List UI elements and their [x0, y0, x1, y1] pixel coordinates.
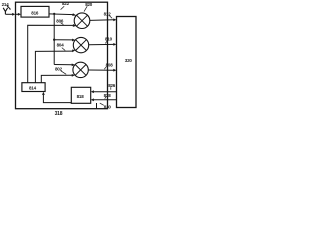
- leader 802: [61, 71, 66, 75]
- svg-text:818: 818: [77, 94, 85, 99]
- leader 804: [62, 48, 65, 51]
- arrowhead leader 214: [9, 8, 11, 10]
- arrowhead into border: [12, 13, 15, 16]
- riser R2 from 814: [35, 51, 72, 83]
- wire W1 320 to 818: [94, 91, 117, 93]
- svg-text:808: 808: [106, 63, 114, 68]
- mixer M1: [74, 13, 90, 29]
- svg-text:822: 822: [62, 1, 70, 6]
- wire W2 320 to 818: [94, 99, 117, 101]
- svg-text:820: 820: [85, 2, 93, 7]
- mixer M3: [73, 62, 88, 77]
- svg-text:806: 806: [56, 18, 64, 23]
- leader 826: [110, 87, 112, 90]
- wire M3 to 320: [88, 69, 114, 71]
- svg-text:214: 214: [2, 2, 10, 7]
- leader 808: [104, 67, 106, 70]
- svg-text:320: 320: [125, 58, 133, 63]
- wire antenna to border: [5, 13, 12, 15]
- wire M1 to 320: [90, 19, 114, 22]
- svg-text:812: 812: [104, 11, 112, 16]
- arrowhead into 320 from M3: [113, 69, 116, 72]
- arrowhead into 320 from M2: [113, 43, 116, 46]
- junction dot B: [53, 39, 55, 41]
- svg-text:828: 828: [104, 93, 112, 98]
- arrowhead into 320 from M1: [113, 18, 116, 21]
- svg-text:814: 814: [29, 86, 37, 91]
- arrowhead M2 lower input: [72, 50, 75, 53]
- svg-text:830: 830: [104, 105, 112, 110]
- arrowhead M1 upper input: [72, 13, 76, 16]
- arrowhead M2 upper input: [72, 39, 75, 42]
- antenna 214: [3, 8, 7, 15]
- arrowhead M1 lower input: [73, 24, 77, 27]
- arrowhead up into 814: [42, 92, 45, 95]
- arrowhead W2 into 818: [91, 98, 94, 101]
- wire 818 to 814: [43, 95, 71, 103]
- box 818: [71, 87, 90, 103]
- wire branch to mixer M3: [54, 64, 72, 66]
- leader 810: [105, 41, 107, 44]
- distribution vertical: [53, 14, 55, 65]
- leader 214: [7, 6, 10, 10]
- svg-text:802: 802: [55, 67, 63, 72]
- riser R1 from 814: [28, 25, 74, 82]
- leader 806: [61, 23, 64, 25]
- svg-text:816: 816: [31, 11, 39, 16]
- arrowhead W1 into 818: [91, 90, 94, 93]
- arrowhead M3 upper input: [72, 64, 75, 67]
- wire branch to mixer M2: [54, 39, 72, 41]
- arrowhead into 816: [18, 13, 21, 16]
- leader 820: [84, 6, 87, 11]
- riser R3 from 814: [41, 75, 72, 82]
- leader 812: [109, 16, 112, 19]
- box 816: [21, 6, 49, 17]
- leader 828: [105, 97, 106, 99]
- leader 822: [61, 6, 65, 9]
- mixer M2: [73, 37, 88, 52]
- junction dot A: [53, 13, 55, 15]
- box 814: [22, 83, 45, 92]
- block 318 outer border: [16, 2, 108, 109]
- wire M2 to 320: [89, 43, 114, 45]
- wire border to 816: [16, 13, 19, 15]
- box 320: [117, 17, 137, 108]
- arrowhead M3 lower input: [72, 74, 75, 77]
- svg-text:826: 826: [108, 83, 116, 88]
- svg-text:804: 804: [57, 43, 65, 48]
- vertical stub at bottom right: [96, 103, 98, 109]
- wire 816 to mixer M1: [49, 13, 73, 16]
- svg-text:810: 810: [105, 36, 113, 41]
- leader 830: [100, 103, 104, 105]
- svg-text:318: 318: [55, 111, 63, 117]
